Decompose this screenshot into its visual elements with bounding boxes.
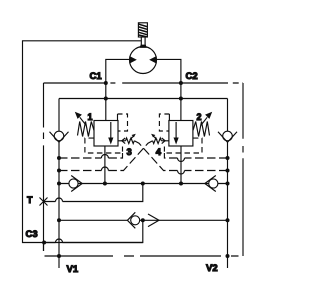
pilot dashed line left y=170.5 with hop (59, 170, 124, 172)
wire motor port C2 side (157, 59, 181, 120)
boundary right edge (chain line) (242, 83, 244, 256)
relief valve RV1 pilot dashed box (top right) (118, 114, 128, 131)
valve RV1 outlet drop wire (104, 146, 106, 184)
svg-text:2: 2 (197, 112, 202, 122)
svg-text:C1: C1 (90, 71, 103, 82)
motor M1 (bidirectional hydraulic motor) (129, 47, 156, 74)
svg-text:3: 3 (127, 147, 132, 158)
svg-text:4: 4 (156, 147, 162, 158)
wire shuttle line y=220.3 (59, 219, 228, 221)
check valve CV1 (anti-cavitation left) (50, 131, 69, 142)
valve RV2 outlet drop wire (180, 146, 182, 184)
relief valve RV2 spring (193, 122, 210, 137)
svg-text:C3: C3 (26, 229, 38, 240)
svg-text:V2: V2 (206, 263, 218, 274)
relief valve RV1 spring (78, 122, 95, 137)
relief valve RV1 drain dashed box (bottom left) (85, 138, 123, 153)
relief valve RV1 body (94, 121, 118, 147)
wire drain line solid segment (top left) (44, 82, 106, 84)
relief valve RV2 pilot dashed box (top left) (159, 114, 169, 131)
svg-text:T: T (27, 195, 33, 205)
check valve CV5 (bottom center) (127, 212, 139, 228)
boundary bottom edge (chain line) (45, 255, 239, 257)
port T plug (X) (40, 198, 48, 206)
svg-text:V1: V1 (67, 264, 79, 275)
check valve CV2 (anti-cavitation right) (218, 131, 237, 142)
check valve CV3 (left horizontal) (69, 176, 82, 192)
relief valve RV1 adjuster arrow (75, 112, 87, 126)
pilot crossover diagonal A (from spring 3 to right pilot line) (134, 141, 163, 171)
wire C3 stub (43, 243, 45, 251)
svg-text:C2: C2 (186, 71, 198, 82)
V2 riser wire (227, 99, 229, 269)
check valve CV4 (right horizontal) (205, 176, 218, 192)
wire motor port C1 side (106, 59, 130, 120)
boundary left edge / C3 line (43, 83, 45, 251)
V1 riser wire (58, 99, 60, 269)
wire bottom return y=242.5 (hop over V1 riser) (44, 239, 143, 242)
pilot crossover diagonal B (from spring 4 to left pilot line) (124, 141, 153, 171)
pilot dashed line right y=158 with hop (164, 153, 227, 158)
wire T line with hop over V1 riser (44, 184, 143, 202)
bridge wire y=183.5 (59, 183, 228, 185)
relief valve RV2 body (169, 121, 193, 147)
svg-text:1: 1 (88, 112, 93, 122)
wire brake release line (outer left loop) (23, 41, 143, 243)
relief valve RV2 adjuster arrow (201, 112, 213, 126)
relief valve RV2 pilot stub (168, 114, 170, 121)
wire manifold header y=98.5 (59, 98, 228, 100)
brake (spring-applied) on motor shaft (138, 23, 147, 48)
relief valve RV1 pilot stub (117, 114, 119, 121)
pilot dashed line left y=158 with hop (59, 153, 123, 158)
pilot spring 3 (118, 134, 136, 144)
flow arrow on shuttle line (148, 214, 159, 227)
pilot dashed line right y=170.5 with hop (163, 170, 228, 172)
relief valve RV2 drain dashed box (bottom right) (164, 138, 202, 153)
pilot spring 4 (151, 134, 169, 144)
boundary top edge (chain line) (110, 82, 243, 84)
